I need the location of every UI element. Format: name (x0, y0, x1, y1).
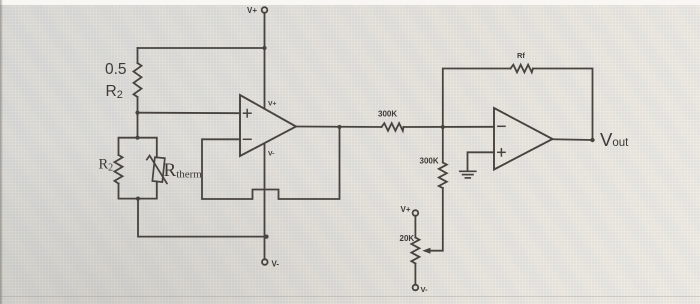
wire to op-amp U1 + input (138, 112, 241, 115)
svg-text:Rf: Rf (517, 51, 525, 60)
svg-text:Vout: Vout (600, 129, 629, 150)
wire top rail (138, 47, 265, 49)
svg-text:Rtherm: Rtherm (164, 160, 203, 181)
wire 0.5R2 top lead (137, 48, 139, 63)
resistor 20K potentiometer (411, 238, 419, 264)
wire U1 feedback rail (minus input, with hop) (202, 127, 340, 199)
wire 20K to V- terminal (414, 264, 416, 285)
node junction at parallel loop top (135, 136, 139, 140)
terminal V- bottom right (413, 285, 428, 294)
wire Rf to output node (533, 69, 593, 141)
svg-text:V+: V+ (268, 101, 277, 108)
wire U2 plus input to ground (468, 152, 495, 170)
svg-text:300K: 300K (378, 110, 397, 119)
resistor Rf (511, 65, 534, 73)
resistor 0.5R2 (134, 63, 142, 97)
terminal V+ mid right (401, 205, 419, 216)
node junction output Vout (590, 138, 594, 142)
wiper arrow into 20K (422, 248, 430, 254)
wire parallel loop rectangle (119, 138, 157, 158)
svg-text:300K: 300K (420, 157, 439, 166)
resistor 300K horizontal (382, 123, 404, 131)
svg-text:V+: V+ (401, 205, 411, 214)
svg-text:V-: V- (272, 260, 280, 269)
thermistor Rtherm (147, 156, 167, 184)
node junction at 300K vertical tap (441, 125, 445, 129)
ground (460, 171, 476, 178)
wire V+ stem down to op-amp U1 (264, 13, 266, 108)
node junction feedback / output (337, 125, 341, 129)
node junction top rail / V+ stem (262, 46, 266, 50)
label U2 plus input (498, 149, 505, 156)
svg-text:V-: V- (268, 151, 274, 158)
wire tap down to 300K vertical (442, 127, 444, 163)
svg-text:20K: 20K (400, 234, 415, 243)
svg-text:R2: R2 (99, 157, 114, 174)
node junction V- rail / V- stem (264, 235, 268, 239)
svg-text:V-: V- (421, 285, 429, 294)
label 0.5 R2 (105, 61, 127, 101)
op-amp U2 (494, 108, 553, 170)
op-amp U1 (240, 95, 296, 156)
wire 0.5R2 bottom lead (137, 97, 139, 138)
svg-text:V+: V+ (247, 6, 257, 15)
wire U2 output (553, 138, 593, 141)
terminal V- bottom middle (262, 259, 279, 268)
wire 300K to U2 minus input (404, 126, 495, 128)
label U1 minus input (244, 138, 252, 140)
label U1 plus input (244, 110, 252, 118)
resistor 300K vertical (439, 163, 447, 189)
label U2 minus input (498, 125, 505, 127)
svg-text:R2: R2 (106, 83, 123, 101)
wire V+ to 20K (414, 216, 416, 238)
wire U1 V- stem down to terminal (264, 144, 266, 260)
resistor R2 (lower) (115, 155, 123, 184)
wire U1 output to 300K (296, 126, 382, 129)
node junction at parallel loop bottom (136, 197, 140, 201)
wire 300K vertical down to wiper arm (429, 188, 443, 251)
terminal V+ top (247, 6, 267, 15)
node junction at + input wire (135, 111, 139, 115)
wire loop bottom to V- rail (138, 199, 267, 237)
wire U2 feedback up leg (443, 69, 511, 128)
svg-text:0.5: 0.5 (105, 61, 127, 78)
